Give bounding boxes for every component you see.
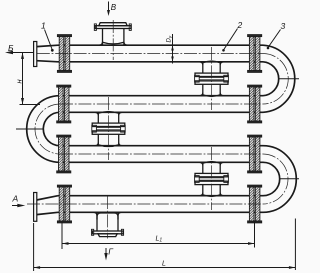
svg-text:1: 1 bbox=[41, 21, 46, 31]
svg-text:В: В bbox=[111, 3, 117, 12]
svg-text:Dу: Dу bbox=[167, 35, 173, 42]
svg-text:L1: L1 bbox=[156, 236, 163, 244]
svg-text:н: н bbox=[15, 79, 24, 83]
svg-text:Г: Г bbox=[108, 247, 114, 257]
svg-text:3: 3 bbox=[281, 21, 286, 31]
svg-text:L: L bbox=[162, 261, 166, 268]
svg-text:Б: Б bbox=[8, 43, 14, 53]
svg-text:А: А bbox=[12, 194, 19, 204]
svg-text:2: 2 bbox=[237, 20, 243, 30]
